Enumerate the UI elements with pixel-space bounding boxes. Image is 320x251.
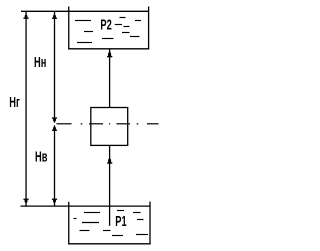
arrow Hg top — [23, 14, 28, 19]
svg-text:P2: P2 — [100, 16, 112, 33]
tank P1 left wall — [68, 202, 70, 244]
svg-text:Нв: Нв — [35, 148, 47, 165]
tank P1 right wall — [149, 202, 151, 244]
arrow flow up on suction pipe — [107, 158, 112, 164]
dimension line Hg — [25, 11, 27, 206]
wire discharge pipe (pump to P2) — [109, 49, 111, 107]
tank P2 liquid dashes — [75, 18, 141, 43]
arrow Hn top — [52, 14, 57, 19]
svg-text:Нг: Нг — [9, 94, 20, 111]
arrow Hv top — [52, 126, 57, 131]
svg-text:Нн: Нн — [34, 54, 46, 71]
arrow Hg bottom — [23, 199, 28, 204]
svg-text:P1: P1 — [115, 213, 127, 230]
dimension line Hn — [54, 11, 56, 122]
arrow Hn bottom — [52, 117, 57, 122]
tank P1 bottom — [68, 243, 151, 245]
wire suction pipe (P1 to pump) — [109, 146, 111, 226]
arrow Hv bottom — [52, 199, 57, 204]
tank P2 left wall — [68, 7, 70, 49]
tank P2 bottom — [68, 48, 149, 50]
pump rectangle — [91, 108, 128, 146]
node upper liquid level line (extension) — [21, 10, 149, 12]
node lower liquid level line (extension) — [21, 205, 151, 207]
arrow flow up on discharge pipe — [107, 51, 112, 57]
dimension line Hv — [54, 125, 56, 206]
tank P2 right wall — [148, 7, 150, 49]
node pump centerline (dash-dot axis) — [57, 123, 159, 125]
tank P1 liquid dashes — [74, 211, 149, 236]
